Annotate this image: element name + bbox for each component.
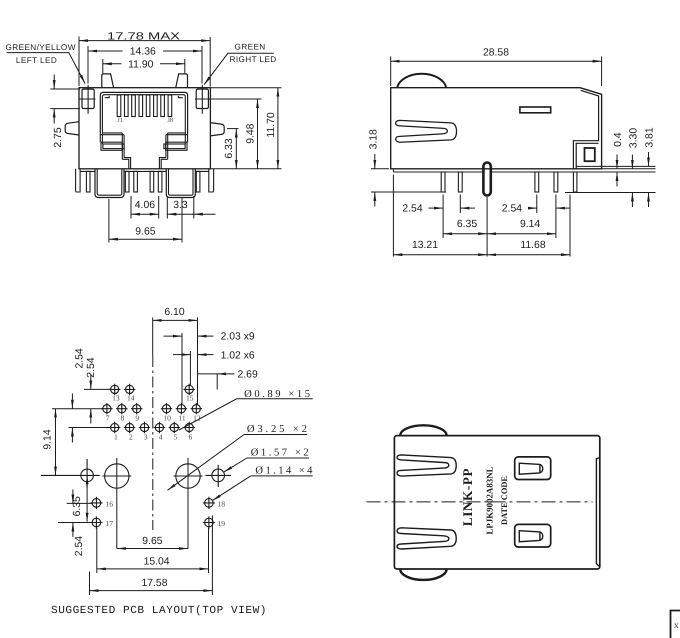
svg-text:2.54: 2.54 — [74, 348, 85, 368]
hole 8 — [116, 403, 127, 414]
hole 12 — [191, 403, 202, 414]
dim 2.75 extension lines — [50, 89, 80, 109]
dim 28.58 extension lines — [391, 57, 602, 87]
svg-text:13.21: 13.21 — [412, 240, 438, 251]
hole 13 — [109, 384, 120, 395]
contact 7 — [161, 95, 165, 117]
dim 14.36 line — [88, 50, 202, 52]
latch slot sides — [122, 133, 167, 159]
right side extension lines 0.4/3.30/3.81 — [565, 166, 656, 192]
dim 6.10 line — [153, 319, 198, 321]
svg-text:6.35: 6.35 — [72, 496, 83, 516]
thin pin f — [196, 171, 200, 192]
dim 3.3 extension lines — [167, 196, 194, 219]
hole 18 — [203, 497, 215, 509]
dim 9.14 pcb line — [55, 409, 57, 476]
thin pin b — [125, 171, 129, 192]
dim 4.06 line — [131, 213, 159, 215]
bottom dim extension lines — [393, 175, 570, 257]
hole 7 — [101, 403, 112, 414]
svg-text:15.04: 15.04 — [144, 556, 170, 567]
dim 9.14 line — [487, 233, 556, 235]
dim 2.54 c arrows — [72, 489, 74, 537]
back hole — [585, 148, 595, 161]
svg-text:SUGGESTED PCB LAYOUT(TOP VIEW): SUGGESTED PCB LAYOUT(TOP VIEW) — [51, 605, 267, 617]
pad bottom inner — [519, 531, 542, 542]
dim 4.06 extension lines — [131, 196, 159, 219]
thin pin c — [134, 171, 138, 192]
side tab right — [210, 123, 224, 136]
svg-text:3: 3 — [144, 432, 148, 441]
latch fork top — [397, 455, 456, 476]
dim 2.75 arrows — [53, 75, 55, 124]
thin pin e — [158, 171, 162, 192]
left LED cross — [80, 85, 96, 114]
hole dia1.57 left — [41, 459, 100, 488]
svg-text:LEFT LED: LEFT LED — [16, 56, 57, 65]
svg-text:7: 7 — [106, 413, 110, 422]
side pin 5 (step leg) — [573, 172, 577, 192]
svg-text:LPJK9002A83NL: LPJK9002A83NL — [485, 466, 495, 534]
svg-text:12: 12 — [193, 413, 201, 422]
contact 2 — [125, 95, 129, 117]
front view texts — [6, 32, 277, 238]
svg-text:5: 5 — [174, 432, 178, 441]
svg-text:18: 18 — [218, 500, 226, 509]
label dia0.89 leader — [179, 399, 313, 430]
label leader left LED — [7, 53, 84, 82]
dim 1.02 arrows — [173, 354, 214, 356]
dim 0.4 arrows — [616, 155, 618, 187]
contact 4 — [139, 95, 143, 117]
dim 13.21 line — [393, 254, 487, 256]
far-right shield leg — [209, 169, 214, 192]
latch wing left inner — [103, 144, 124, 149]
svg-text:3.81: 3.81 — [645, 127, 656, 147]
svg-text:Ø0.89 ×15: Ø0.89 ×15 — [244, 389, 310, 400]
pad top inner — [519, 463, 542, 474]
svg-text:x: x — [674, 621, 679, 631]
svg-text:9.65: 9.65 — [142, 536, 162, 547]
contact 8 — [168, 95, 172, 117]
latch slot bottom steps — [122, 158, 167, 169]
dim 6.10 extension lines — [153, 318, 198, 405]
dim 3.18 arrows — [374, 154, 376, 207]
top view centerline — [367, 501, 593, 503]
back step inner line — [576, 143, 598, 169]
dim 6.35 line — [443, 233, 487, 235]
dim 2.69 extension line — [216, 374, 218, 390]
contact 5 — [146, 95, 150, 117]
svg-text:GREEN/YELLOW: GREEN/YELLOW — [6, 43, 76, 52]
dim 3.3 line — [167, 213, 215, 215]
dim 3.81 arrows — [648, 152, 650, 207]
hole 17 — [90, 516, 102, 528]
right side extension lines — [208, 88, 281, 169]
latch fork side — [396, 120, 457, 142]
svg-text:2.03 x9: 2.03 x9 — [221, 332, 255, 343]
port corner notch left — [105, 96, 109, 98]
big shield leg left inner — [97, 169, 122, 195]
side body outline — [391, 88, 602, 169]
side pin 1 — [441, 172, 445, 192]
dim 2.69 line and arrow — [198, 373, 235, 375]
svg-text:9.14: 9.14 — [520, 219, 540, 230]
dim 15.04 line — [97, 568, 209, 570]
right LED cross — [195, 85, 210, 114]
contact 1 — [117, 95, 121, 117]
thin pin d — [150, 171, 154, 192]
svg-text:14.36: 14.36 — [130, 47, 156, 58]
svg-text:13: 13 — [112, 394, 120, 403]
svg-text:9.48: 9.48 — [246, 123, 257, 143]
svg-text:DATE CODE: DATE CODE — [500, 476, 509, 525]
side pin 4 — [554, 172, 558, 192]
dim 2.03 arrows — [164, 335, 214, 337]
hole dia1.57 right — [206, 465, 232, 487]
port inner outline — [102, 95, 185, 134]
dim 3.30 arrows — [631, 155, 633, 208]
latch fork bottom — [397, 528, 456, 549]
svg-text:4.06: 4.06 — [135, 200, 155, 211]
hole 11 — [176, 403, 187, 414]
hole 16 — [90, 497, 102, 509]
big shield leg right outer — [166, 169, 195, 198]
svg-text:6.10: 6.10 — [164, 307, 184, 318]
far-left shield leg — [76, 169, 81, 192]
svg-text:10: 10 — [163, 413, 171, 422]
contact 3 — [132, 95, 136, 117]
svg-text:GREEN: GREEN — [235, 43, 266, 52]
port corner notch right — [178, 96, 182, 98]
svg-text:3.30: 3.30 — [628, 128, 639, 148]
label leader right LED — [205, 53, 274, 83]
hole 6 — [184, 422, 195, 433]
dim 2.54 b arrows — [71, 394, 73, 443]
svg-text:16: 16 — [106, 500, 114, 509]
hole 4 — [154, 422, 165, 433]
hole 19 — [203, 516, 215, 528]
dim 9.65 extension lines — [109, 197, 182, 243]
dim 11.70 line — [277, 88, 279, 169]
mounting post right — [176, 74, 188, 88]
bottom pcb extension lines — [90, 516, 213, 596]
dim 17.58 line — [90, 590, 213, 592]
latch wing right inner — [164, 144, 185, 149]
dim 17.78 MAX extension lines — [79, 37, 210, 87]
top dome — [397, 74, 446, 88]
svg-text:11: 11 — [178, 413, 186, 422]
dim 14.36 extension lines — [88, 46, 202, 84]
hole dia3.25 left — [102, 458, 131, 549]
centerline vertical dash-dot — [152, 356, 154, 530]
svg-text:RIGHT LED: RIGHT LED — [230, 55, 277, 64]
label dia3.25 leader — [244, 434, 307, 436]
svg-text:8: 8 — [121, 413, 125, 422]
dim 11.90 line — [103, 63, 185, 65]
top slot — [520, 107, 551, 113]
dome arc bottom — [400, 569, 446, 580]
svg-text:17.58: 17.58 — [141, 578, 167, 589]
svg-text:2.54: 2.54 — [402, 204, 422, 215]
mounting post left — [102, 74, 114, 88]
svg-text:3.18: 3.18 — [369, 129, 380, 149]
hole 14 — [124, 384, 135, 395]
svg-text:2.54: 2.54 — [86, 357, 97, 377]
hole 9 — [131, 403, 142, 414]
dim 6.33 line — [235, 129, 237, 169]
dome arc top — [400, 425, 446, 435]
dim 6.33 extension tick — [227, 128, 239, 130]
svg-text:LINK-PP: LINK-PP — [460, 468, 475, 526]
pad bottom outer — [515, 524, 551, 547]
dim 17.78 MAX line — [79, 40, 210, 42]
hole 5 — [169, 422, 180, 433]
svg-text:J1: J1 — [117, 117, 123, 124]
dim 2.54 a arrows — [90, 375, 92, 424]
dim 2.54 left arrows — [429, 207, 476, 209]
svg-text:19: 19 — [218, 519, 226, 528]
latch wing right outer — [166, 142, 187, 150]
svg-text:17: 17 — [106, 519, 114, 528]
label dia1.14 leader — [251, 475, 313, 477]
dim 9.65 pcb line — [117, 548, 188, 550]
svg-text:6: 6 — [189, 432, 193, 441]
svg-text:11.68: 11.68 — [520, 240, 545, 251]
svg-text:1: 1 — [114, 432, 118, 441]
dim 3.18 extension lines — [371, 169, 446, 192]
svg-text:9.65: 9.65 — [135, 227, 155, 238]
side pin 3 — [535, 172, 539, 192]
svg-text:1.02 x6: 1.02 x6 — [221, 350, 255, 361]
dim 6.35 pcb line — [86, 475, 88, 521]
wing connector verticals — [100, 133, 187, 144]
dim 9.65 line — [109, 238, 182, 240]
svg-text:2: 2 — [129, 432, 133, 441]
plastic bottom line — [393, 169, 567, 172]
left LED box — [82, 89, 94, 108]
hole dia3.25 right — [174, 458, 203, 549]
side tab left — [65, 122, 79, 135]
svg-text:14: 14 — [127, 394, 135, 403]
left row extension lines — [52, 389, 111, 522]
svg-text:9: 9 — [135, 413, 139, 422]
svg-text:4: 4 — [159, 432, 163, 441]
label dia1.57 leader — [247, 457, 309, 459]
latch wing left outer — [101, 142, 122, 150]
port outer outline — [100, 92, 187, 133]
pad top outer — [515, 457, 551, 480]
big shield leg left outer — [95, 169, 124, 198]
svg-text:28.58: 28.58 — [483, 48, 509, 59]
bottom shoulder line segments — [80, 170, 209, 172]
front view body outline — [79, 88, 210, 169]
hole 3 — [139, 422, 150, 433]
svg-text:6.35: 6.35 — [457, 219, 477, 230]
right inner edge line — [596, 458, 599, 567]
svg-text:J8: J8 — [167, 117, 173, 124]
EMI finger capsule — [483, 163, 490, 196]
back wall inner line — [573, 90, 598, 169]
port floor lines — [100, 133, 187, 135]
side pin 2 — [458, 172, 462, 192]
svg-text:0.4: 0.4 — [613, 132, 624, 147]
svg-text:9.14: 9.14 — [42, 429, 53, 449]
svg-text:2.54: 2.54 — [74, 536, 85, 556]
dim 11.90 extension lines — [103, 59, 185, 73]
top view body — [394, 436, 599, 569]
hole 15 — [184, 384, 195, 395]
svg-text:6.33: 6.33 — [224, 138, 235, 158]
hole 1 — [109, 422, 120, 433]
dim 1.02 extension line — [189, 351, 191, 385]
svg-text:2.54: 2.54 — [502, 204, 522, 215]
dim 2.03 extension line — [181, 333, 183, 405]
svg-text:15: 15 — [186, 394, 194, 403]
dim 9.48 line — [257, 99, 259, 169]
svg-text:17.78 MAX: 17.78 MAX — [107, 32, 180, 43]
right LED box — [196, 89, 208, 108]
big shield leg right inner — [169, 169, 194, 195]
dim 28.58 line — [391, 60, 602, 62]
title block box — [671, 611, 680, 638]
thin pin a — [86, 171, 90, 192]
contact 6 — [154, 95, 158, 117]
svg-text:11.70: 11.70 — [266, 112, 277, 137]
dim 11.68 line — [487, 254, 570, 256]
hole 2 — [124, 422, 135, 433]
svg-text:11.90: 11.90 — [128, 60, 153, 71]
svg-text:2.75: 2.75 — [53, 127, 64, 147]
hole 10 — [161, 403, 172, 414]
dim 2.54 right arrows — [529, 207, 571, 209]
svg-text:2.69: 2.69 — [238, 369, 258, 380]
svg-text:3.3: 3.3 — [173, 200, 188, 211]
